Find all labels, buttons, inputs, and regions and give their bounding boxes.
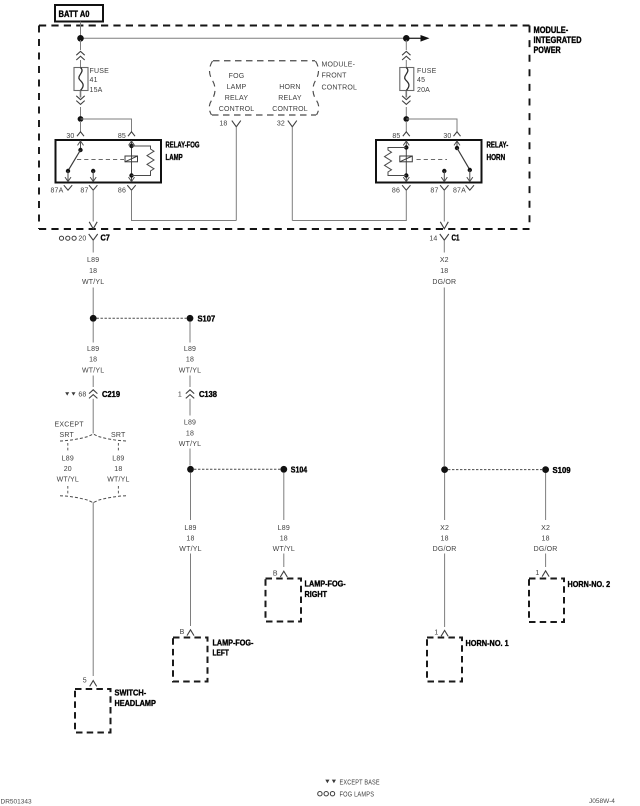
- label: SWITCH-HEADLAMP: [115, 688, 157, 708]
- wire: link to S109: [448, 469, 542, 471]
- pin B fork at lamp-fog-left: [180, 629, 194, 636]
- relay: RELAY-FOG LAMP box: [56, 140, 162, 183]
- svg-text:RELAY-FOG: RELAY-FOG: [166, 140, 200, 150]
- svg-text:WT/YL: WT/YL: [107, 476, 129, 483]
- fuse F45 body: [400, 68, 414, 91]
- connector C7 fork: [78, 233, 110, 243]
- svg-text:WT/YL: WT/YL: [179, 367, 201, 374]
- svg-text:DR501343: DR501343: [1, 798, 32, 805]
- label: drawing code J058W-4: [589, 798, 615, 805]
- label: sheet number DR501343: [1, 798, 32, 805]
- svg-text:DG/OR: DG/OR: [433, 546, 457, 553]
- node: junction dot left (fuse 41 tap): [77, 35, 84, 42]
- svg-text:RELAY-: RELAY-: [487, 140, 509, 150]
- svg-text:C7: C7: [101, 233, 111, 243]
- pin 87 fork (horn relay bottom): [430, 185, 448, 194]
- svg-text:C138: C138: [199, 389, 217, 399]
- wire: link to S107: [97, 317, 187, 319]
- wire: horn relay 87 down to C1: [443, 190, 445, 221]
- svg-text:18: 18: [441, 535, 449, 542]
- pin 86 fork (fog relay bottom): [118, 185, 136, 194]
- component: SWITCH-HEADLAMP dashed box: [75, 689, 111, 733]
- svg-text:18: 18: [440, 268, 448, 275]
- svg-text:18: 18: [219, 121, 227, 128]
- symbol: split brace top: [60, 434, 127, 441]
- svg-text:SRT: SRT: [111, 432, 126, 439]
- fog relay coil box: [125, 156, 138, 162]
- svg-text:FUSE: FUSE: [417, 68, 437, 75]
- svg-text:20: 20: [78, 235, 86, 242]
- svg-text:14: 14: [429, 235, 437, 242]
- wire: junction right to pin 85: [81, 119, 132, 132]
- wire: S104 left leg down (L89 18 WT/YL): [190, 473, 192, 626]
- label: wire L89 18 WT/YL (lamp-fog-right): [273, 525, 295, 553]
- label: wire L89 18 WT/YL (to C219): [82, 346, 104, 374]
- fog relay switch: pin 30 leg with up arrow: [65, 141, 84, 182]
- svg-text:B: B: [180, 629, 185, 636]
- svg-text:WT/YL: WT/YL: [57, 476, 79, 483]
- svg-text:RELAY: RELAY: [278, 95, 302, 102]
- horn relay pin 87 stub: [441, 169, 447, 182]
- svg-text:L89: L89: [62, 456, 74, 463]
- pin 30 fork (fog relay top): [66, 132, 84, 140]
- symbol: except-base triangles at C219: [65, 392, 75, 395]
- pin B fork at lamp-fog-right: [273, 570, 287, 577]
- svg-text:18: 18: [280, 535, 288, 542]
- svg-text:LAMP-FOG-: LAMP-FOG-: [213, 637, 254, 647]
- svg-text:87A: 87A: [453, 188, 466, 195]
- wire: bus down to fuse 41: [80, 40, 82, 50]
- svg-text:X2: X2: [440, 525, 449, 532]
- svg-text:85: 85: [118, 133, 126, 140]
- label: HORN-NO. 2: [568, 579, 611, 589]
- horn relay switch: pin 30 leg: [454, 141, 473, 182]
- svg-text:LEFT: LEFT: [213, 648, 230, 658]
- svg-text:87A: 87A: [50, 188, 63, 195]
- pin 18 label and fork (fog lamp relay control output): [219, 121, 240, 128]
- connector C1 fork: [429, 233, 459, 243]
- svg-text:1: 1: [535, 570, 539, 577]
- wire: junction to pin 30 fork: [80, 121, 82, 132]
- label: HORN-NO. 1: [466, 638, 509, 648]
- wire: BATT A0 to bus junction: [80, 22, 82, 38]
- svg-text:B: B: [273, 570, 278, 577]
- svg-text:20: 20: [64, 466, 72, 473]
- fuse F41 body: [74, 68, 88, 91]
- connector chevrons below fuse 41: [76, 96, 84, 105]
- svg-text:X2: X2: [541, 525, 550, 532]
- svg-text:DG/OR: DG/OR: [534, 546, 558, 553]
- svg-text:MODULE-: MODULE-: [322, 62, 356, 69]
- wire: link to S104: [194, 468, 280, 470]
- node: BATT A0 feed box: [55, 5, 103, 22]
- svg-text:WT/YL: WT/YL: [179, 546, 201, 553]
- horn relay coil leg: [403, 141, 409, 182]
- arrowhead: bus continuation right: [421, 35, 430, 42]
- svg-text:L89: L89: [112, 456, 124, 463]
- wire: junction right to horn relay pin 30: [406, 119, 457, 132]
- svg-text:18: 18: [89, 357, 97, 364]
- label: wire L89 18 WT/YL (C138 to S104): [179, 420, 201, 449]
- label: MODULE-INTEGRATED POWER: [534, 25, 582, 55]
- svg-text:RIGHT: RIGHT: [305, 589, 328, 599]
- connector C219 chevrons: [78, 389, 120, 399]
- svg-text:C1: C1: [452, 233, 460, 243]
- svg-text:LAMP: LAMP: [166, 152, 183, 162]
- label: FUSE 41 15A: [90, 68, 110, 94]
- label: FUSE 45 20A: [417, 68, 437, 94]
- label: RELAY-HORN: [487, 140, 509, 162]
- node: junction dot right (fuse 45 tap): [403, 35, 410, 42]
- svg-text:18: 18: [114, 466, 122, 473]
- svg-text:18: 18: [542, 535, 550, 542]
- label: wire L89 18 WT/YL (C7 segment): [82, 257, 104, 286]
- svg-text:L89: L89: [184, 346, 196, 353]
- svg-text:1: 1: [434, 629, 438, 636]
- svg-text:WT/YL: WT/YL: [82, 279, 104, 286]
- node: splice junction left of S109: [441, 466, 448, 473]
- wire: C7 down (L89 18 WT/YL): [92, 240, 94, 315]
- fog relay winding resistor: [132, 146, 155, 176]
- label: wire X2 18 DG/OR (horn no.1): [433, 525, 457, 553]
- wire: C138 down (L89 18 WT/YL): [189, 399, 191, 466]
- svg-text:CONTROL: CONTROL: [219, 106, 255, 113]
- svg-text:HORN: HORN: [487, 152, 506, 162]
- svg-text:18: 18: [186, 430, 194, 437]
- svg-text:S104: S104: [291, 465, 308, 475]
- svg-text:HORN-NO. 1: HORN-NO. 1: [466, 638, 509, 648]
- symbol: split brace bottom: [60, 496, 127, 503]
- pin 87A fork (fog relay bottom, no wire): [50, 185, 72, 194]
- svg-text:18: 18: [186, 535, 194, 542]
- label: wire X2 18 DG/OR (C1 segment): [432, 257, 456, 286]
- splice S109: [542, 465, 571, 475]
- wire: SRT right branch dashes lower: [117, 486, 119, 494]
- svg-text:L89: L89: [87, 257, 99, 264]
- horn relay winding resistor: [385, 148, 407, 176]
- svg-text:CONTROL: CONTROL: [322, 84, 358, 91]
- svg-text:LAMP: LAMP: [227, 84, 247, 91]
- symbol: fog lamps option circles at C7: [59, 236, 76, 240]
- node: junction above fog relay: [78, 116, 84, 122]
- wire: C1 down (X2 18 DG/OR): [443, 240, 445, 466]
- svg-text:RELAY: RELAY: [225, 95, 249, 102]
- label: RELAY-FOG LAMP: [166, 140, 200, 162]
- svg-text:15A: 15A: [90, 87, 103, 94]
- splice S107: [187, 314, 216, 324]
- svg-text:85: 85: [392, 133, 400, 140]
- wire: fuse 45 down: [405, 91, 407, 98]
- wire: fog relay 86 to control pin 18: [132, 127, 237, 221]
- svg-text:LAMP-FOG-: LAMP-FOG-: [305, 578, 346, 588]
- module: front control dashed outline (wavy sides): [209, 61, 319, 115]
- svg-text:S107: S107: [198, 314, 216, 324]
- pin 1 fork at horn no.1: [434, 629, 448, 636]
- svg-text:WT/YL: WT/YL: [179, 441, 201, 448]
- node: splice junction left of S104: [187, 466, 194, 473]
- svg-text:WT/YL: WT/YL: [273, 546, 295, 553]
- wire: S109 right leg down (X2 18 DG/OR): [545, 473, 547, 567]
- svg-text:MODULE-: MODULE-: [534, 25, 569, 35]
- horn relay coil box: [400, 156, 413, 162]
- fog relay mechanical link (dashed): [77, 159, 124, 161]
- horn relay mechanical link (dashed): [417, 159, 448, 161]
- svg-text:DG/OR: DG/OR: [432, 279, 456, 286]
- wire: SRT right branch dashes: [117, 443, 119, 451]
- svg-text:EXCEPT: EXCEPT: [55, 421, 85, 428]
- wire: S107 down (L89 18 WT/YL): [189, 322, 191, 387]
- component: LAMP-FOG-LEFT dashed box: [173, 638, 208, 682]
- arrowhead: crossing boundary at C1: [440, 222, 448, 229]
- svg-text:WT/YL: WT/YL: [82, 367, 104, 374]
- svg-text:X2: X2: [440, 257, 449, 264]
- svg-text:CONTROL: CONTROL: [272, 106, 308, 113]
- svg-text:SRT: SRT: [60, 432, 75, 439]
- svg-text:S109: S109: [553, 465, 571, 475]
- pin 30 fork (horn relay top): [443, 132, 460, 140]
- pin 5 fork at headlamp switch: [83, 677, 97, 686]
- label: wire L89 18 WT/YL (SRT): [107, 456, 129, 484]
- wire: SRT left branch dashes lower: [67, 486, 69, 494]
- svg-text:HEADLAMP: HEADLAMP: [115, 698, 157, 708]
- svg-text:FOG LAMPS: FOG LAMPS: [340, 792, 375, 799]
- wire: merged branch to headlamp switch: [92, 502, 94, 676]
- svg-text:L89: L89: [184, 420, 196, 427]
- svg-text:20A: 20A: [417, 87, 430, 94]
- component: HORN-NO.2 dashed box: [529, 579, 564, 623]
- svg-text:HORN-NO. 2: HORN-NO. 2: [568, 579, 611, 589]
- splice S104: [280, 465, 307, 475]
- label: wire L89 20 WT/YL (except SRT): [57, 456, 79, 484]
- wire: C219 down to split: [92, 399, 94, 434]
- connector C138 chevrons: [178, 389, 217, 399]
- pin 86 fork (horn relay bottom): [392, 185, 411, 194]
- connector chevrons above fuse 45: [402, 51, 410, 60]
- fog relay coil leg: [129, 141, 135, 182]
- label: wire X2 18 DG/OR (horn no.2): [534, 525, 558, 553]
- label: MODULE-FRONT CONTROL: [322, 62, 358, 92]
- wire: below left junction (L89 18 WT/YL): [92, 322, 94, 387]
- svg-text:L89: L89: [184, 525, 196, 532]
- pin 87A fork (horn relay bottom, no wire): [453, 185, 474, 194]
- wire: bus down to fuse 45: [405, 40, 407, 50]
- svg-text:41: 41: [90, 77, 98, 84]
- connector chevrons below fuse 45: [402, 96, 410, 105]
- wire: fuse 41 to relay feed: [80, 91, 82, 98]
- pin 87 fork (fog relay bottom): [80, 185, 97, 194]
- wire: horn relay 86 to control pin 32: [292, 127, 406, 221]
- pin 32 label and fork (horn relay control output): [277, 121, 297, 128]
- svg-text:30: 30: [66, 133, 74, 140]
- wire: S104 right leg down (L89 18 WT/YL): [283, 473, 285, 567]
- label: HORN RELAY CONTROL: [272, 84, 308, 113]
- svg-text:L89: L89: [87, 346, 99, 353]
- wire: S109 left leg down (X2 18 DG/OR): [444, 473, 446, 627]
- svg-text:EXCEPT BASE: EXCEPT BASE: [340, 779, 380, 786]
- module: integrated power dashed boundary box: [39, 26, 530, 230]
- label: wire L89 18 WT/YL (S107 to C138): [179, 346, 201, 374]
- svg-text:INTEGRATED: INTEGRATED: [534, 35, 582, 45]
- label: LAMP-FOG-LEFT: [213, 637, 254, 657]
- svg-text:18: 18: [186, 357, 194, 364]
- label: EXCEPT SRT / SRT: [55, 421, 126, 439]
- arrowhead: crossing boundary at C7: [89, 222, 97, 229]
- svg-text:FOG: FOG: [229, 73, 245, 80]
- svg-text:86: 86: [392, 188, 400, 195]
- svg-text:1: 1: [178, 391, 182, 398]
- node: junction above horn relay: [403, 116, 409, 122]
- svg-text:POWER: POWER: [534, 45, 562, 55]
- svg-text:30: 30: [443, 133, 451, 140]
- pin 1 fork at horn no.2: [535, 570, 549, 577]
- svg-text:C219: C219: [102, 389, 120, 399]
- wire: fog relay 87 down to C7: [92, 190, 94, 221]
- relay: RELAY-HORN box: [376, 140, 482, 183]
- svg-text:87: 87: [430, 188, 438, 195]
- wire: SRT left branch dashes: [67, 443, 69, 451]
- legend: fog lamps circles: [318, 792, 375, 799]
- svg-text:BATT A0: BATT A0: [59, 9, 90, 19]
- legend: except base triangles: [325, 779, 380, 786]
- node: splice junction left of S107: [90, 315, 97, 322]
- svg-text:87: 87: [80, 188, 88, 195]
- svg-text:32: 32: [277, 121, 285, 128]
- label: wire L89 18 WT/YL (lamp-fog-left): [179, 525, 201, 553]
- connector chevrons above fuse 41: [76, 51, 84, 60]
- svg-text:J058W-4: J058W-4: [589, 798, 615, 805]
- wire: top power bus: [81, 37, 405, 39]
- component: HORN-NO.1 dashed box: [427, 638, 462, 682]
- svg-text:86: 86: [118, 188, 126, 195]
- svg-text:5: 5: [83, 677, 87, 684]
- svg-text:68: 68: [78, 391, 86, 398]
- pin 85 fork (horn relay top): [392, 132, 409, 140]
- svg-text:18: 18: [89, 268, 97, 275]
- component: LAMP-FOG-RIGHT dashed box: [266, 579, 302, 622]
- label: LAMP-FOG-RIGHT: [305, 578, 346, 599]
- svg-text:45: 45: [417, 77, 425, 84]
- svg-text:FUSE: FUSE: [90, 68, 110, 75]
- pin 85 fork (fog relay top): [118, 132, 135, 140]
- label: FOG LAMP RELAY CONTROL: [219, 73, 255, 113]
- svg-text:HORN: HORN: [279, 84, 300, 91]
- wire: junction to horn relay pin 85 fork: [405, 121, 407, 132]
- svg-text:L89: L89: [278, 525, 290, 532]
- svg-text:SWITCH-: SWITCH-: [115, 688, 147, 698]
- svg-text:FRONT: FRONT: [322, 72, 348, 79]
- fog relay pin 87 stub with down arrow: [90, 169, 96, 182]
